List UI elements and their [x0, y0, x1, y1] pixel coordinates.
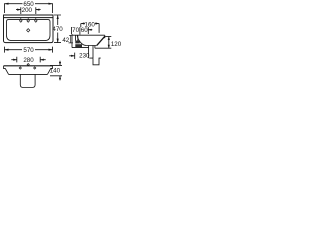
dim 200 ext lines	[21, 7, 36, 14]
trap bend block upper	[75, 41, 80, 44]
tap hole ticks	[21, 18, 36, 19]
side bowl curve	[77, 35, 97, 45]
dim 650 line	[5, 4, 53, 13]
tap hole right	[35, 19, 38, 22]
svg-text:280: 280	[23, 57, 34, 64]
side front foot	[94, 46, 96, 49]
dim 120 line	[108, 37, 110, 49]
drain pipe	[89, 45, 93, 58]
plan view outer rim	[4, 15, 54, 43]
semi-pedestal	[20, 74, 35, 87]
front rim center diamond	[27, 64, 29, 66]
svg-text:470: 470	[52, 26, 63, 33]
side front edge	[104, 35, 106, 38]
svg-text:120: 120	[111, 41, 122, 48]
dim 140 arrows outside	[59, 61, 61, 81]
svg-text:570: 570	[23, 47, 34, 54]
dim 200 arrows	[16, 9, 41, 11]
svg-text:60: 60	[81, 27, 88, 34]
svg-text:230: 230	[79, 53, 90, 60]
side view top line	[72, 34, 105, 36]
dim 120 arrows	[108, 37, 110, 49]
front apron bottom	[9, 73, 48, 75]
dim 70/60 ext bars	[72, 27, 89, 35]
trap bend block lower	[75, 44, 82, 47]
plan view bowl	[7, 20, 51, 41]
tap hole left	[20, 19, 23, 22]
dim 570	[5, 47, 53, 53]
side underside left	[72, 47, 89, 49]
front view rim top line	[4, 65, 53, 67]
dim 120 bottom ext	[95, 47, 111, 49]
side back bracket	[76, 35, 78, 40]
front apron left	[4, 66, 9, 75]
svg-text:70: 70	[72, 27, 79, 34]
front apron right	[47, 66, 52, 75]
dim 470 ext lines	[54, 15, 61, 43]
dim 42	[69, 35, 74, 43]
svg-text:42: 42	[62, 37, 69, 44]
dim 230 arrow	[69, 55, 75, 57]
trap stub	[89, 58, 100, 65]
dim 470 arrows	[57, 15, 59, 43]
front fixing hole right	[34, 67, 36, 69]
svg-text:200: 200	[22, 7, 33, 14]
svg-text:140: 140	[50, 67, 61, 74]
drain diamond	[27, 29, 30, 32]
dim 280	[11, 57, 45, 63]
tap hole center	[27, 19, 30, 22]
dim 160	[81, 24, 99, 33]
dim 120 top ext	[105, 36, 111, 38]
dim 230 ext bar	[74, 53, 76, 59]
dim 60 right arrow	[88, 29, 92, 31]
plan view rim inner top line	[4, 17, 54, 19]
dim 470 line	[57, 15, 59, 43]
front fixing hole left	[19, 67, 21, 69]
side view back wall	[71, 34, 73, 48]
side front underside diagonal	[97, 36, 105, 45]
dim 140 ext lines	[50, 65, 62, 75]
dim 650 arrows	[5, 3, 53, 5]
